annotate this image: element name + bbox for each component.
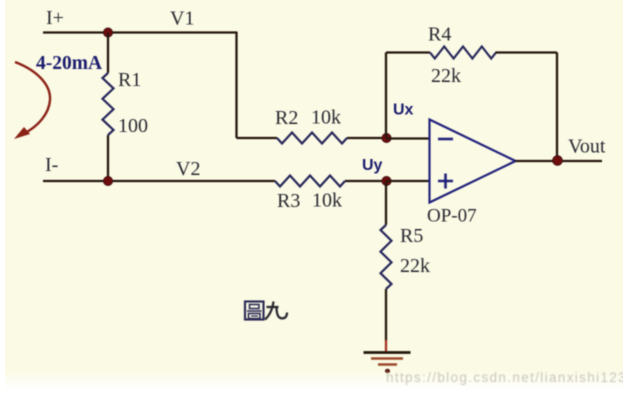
resistor R5: [381, 225, 392, 289]
svg-text:R3: R3: [277, 190, 300, 212]
svg-text:R5: R5: [400, 225, 423, 247]
svg-text:10k: 10k: [312, 190, 342, 212]
wire I- bottom rail: [43, 180, 275, 182]
wire R5 top lead: [385, 181, 387, 225]
svg-text:V1: V1: [170, 8, 194, 30]
resistor R1: [103, 73, 114, 135]
svg-text:OP-07: OP-07: [427, 206, 477, 227]
node Vx: [382, 134, 391, 143]
current source arrow 4-20mA: [15, 62, 50, 133]
wire R2 left lead: [237, 137, 278, 139]
svg-text:Ux: Ux: [393, 102, 414, 119]
caption figure nine: [245, 302, 264, 320]
svg-text:22k: 22k: [400, 255, 430, 277]
wire R1 bottom lead: [107, 135, 109, 181]
svg-text:22k: 22k: [431, 65, 461, 87]
svg-text:R2: R2: [275, 107, 298, 129]
node Vout junction: [553, 156, 563, 166]
svg-text:Uy: Uy: [362, 157, 383, 174]
svg-text:10k: 10k: [311, 107, 341, 129]
wire feedback right drop: [556, 53, 558, 161]
svg-text:V2: V2: [176, 158, 200, 180]
node V2 junction at R1 bottom: [104, 177, 113, 186]
wire feedback top right: [496, 51, 558, 53]
node V1 junction at R1 top: [104, 28, 113, 37]
ground: [364, 351, 411, 354]
wire R5 bottom lead: [385, 289, 387, 341]
wire red lower segment: [385, 340, 387, 352]
wire Vx to inverting input: [386, 137, 430, 139]
resistor R2: [277, 133, 347, 144]
wire Vy to non-inverting input: [386, 180, 430, 182]
wire output: [515, 160, 602, 162]
op-amp U1 OP-07: [430, 120, 516, 203]
wire feedback top left: [386, 51, 430, 53]
resistor R4 feedback: [430, 47, 496, 59]
wire V1 drop to R2 row: [235, 32, 237, 139]
svg-text:R1: R1: [118, 69, 141, 91]
wire Vx up to feedback: [385, 53, 387, 139]
svg-text:I+: I+: [46, 7, 64, 29]
node Vy: [382, 177, 391, 186]
svg-text:Vout: Vout: [568, 136, 606, 158]
wire R3 right lead: [345, 180, 386, 182]
svg-text:I-: I-: [45, 154, 58, 176]
svg-text:100: 100: [118, 115, 148, 137]
wire I+ top rail: [43, 31, 237, 33]
svg-text:4-20mA: 4-20mA: [36, 53, 102, 74]
wire R1 top lead: [107, 33, 109, 74]
resistor R3: [275, 176, 345, 187]
svg-text:https://blog.csdn.net/lianxish: https://blog.csdn.net/lianxishi123: [386, 370, 623, 385]
wire R2 right lead: [347, 137, 386, 139]
svg-text:R4: R4: [428, 24, 451, 46]
